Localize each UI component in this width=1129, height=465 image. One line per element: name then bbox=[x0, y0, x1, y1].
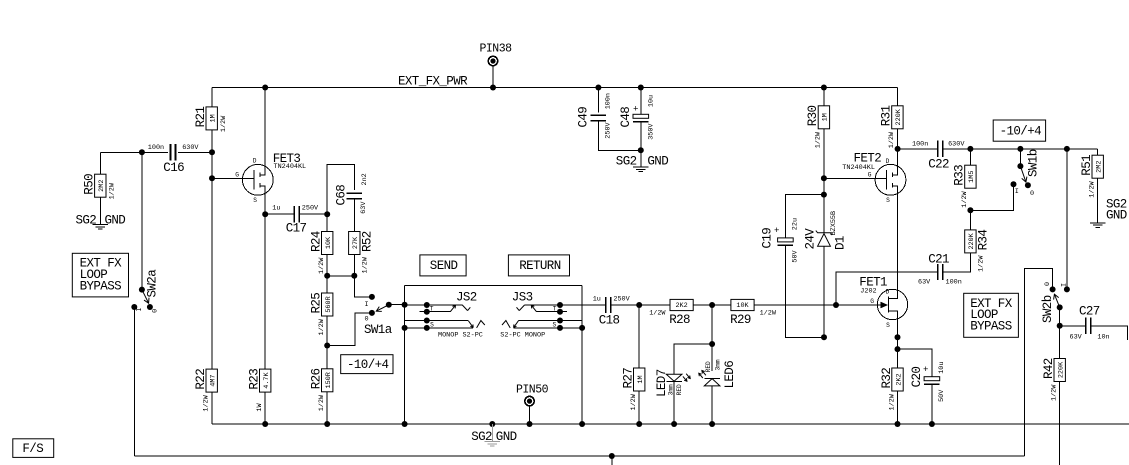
svg-text:22u: 22u bbox=[791, 218, 799, 230]
wire R33 top lead bbox=[969, 149, 971, 165]
svg-text:1W: 1W bbox=[256, 403, 264, 412]
svg-text:2M2: 2M2 bbox=[1096, 161, 1104, 173]
pin label T of JS3 bbox=[553, 305, 557, 312]
node junction R28/R29/LED bbox=[709, 302, 715, 308]
svg-text:R52: R52 bbox=[361, 231, 375, 252]
box EXT FX LOOP BYPASS right bbox=[964, 293, 1019, 337]
node junction SW1a/jack rail bbox=[402, 302, 408, 308]
svg-text:C17: C17 bbox=[286, 222, 307, 236]
wire bypass loop bus bbox=[134, 455, 1024, 457]
svg-text:0: 0 bbox=[152, 309, 160, 313]
svg-text:1/2W: 1/2W bbox=[318, 257, 326, 274]
svg-text:1/2W: 1/2W bbox=[961, 190, 969, 207]
switch SW1a pole bbox=[386, 302, 392, 308]
resistor R52 bbox=[349, 231, 375, 273]
svg-text:250V: 250V bbox=[613, 295, 630, 303]
ground SG2 under C48 bbox=[633, 167, 648, 172]
label SG2 GND under C48 bbox=[616, 155, 668, 169]
box -10/+4 left bbox=[341, 355, 393, 374]
svg-text:SEND: SEND bbox=[430, 259, 458, 273]
transistor FET1 J202 bbox=[836, 276, 908, 338]
wire R31 bottom lead bbox=[896, 129, 898, 149]
svg-text:+: + bbox=[633, 105, 638, 115]
resistor R51 bbox=[1080, 155, 1104, 198]
svg-text:GND: GND bbox=[1106, 209, 1127, 223]
wire R33-R34 junction bbox=[969, 210, 971, 230]
svg-text:SW2a: SW2a bbox=[146, 269, 160, 298]
switch SW2a contact I bbox=[131, 304, 144, 312]
svg-text:R28: R28 bbox=[669, 313, 690, 327]
wire jack enclosure top bbox=[405, 285, 582, 287]
svg-text:D: D bbox=[886, 288, 890, 295]
wire SW2a pole column bbox=[141, 152, 143, 289]
switch SW2b contact I bbox=[1061, 283, 1070, 292]
wire R30 column bbox=[823, 88, 825, 195]
svg-text:GND: GND bbox=[105, 214, 126, 228]
resistor R24 bbox=[310, 231, 334, 274]
ground SG2 under R51 bbox=[1090, 223, 1105, 228]
svg-text:250V: 250V bbox=[605, 121, 613, 138]
resistor R31 bbox=[880, 88, 904, 149]
svg-text:0: 0 bbox=[1030, 190, 1034, 198]
resistor R23 bbox=[248, 369, 272, 412]
capacitor C21 bbox=[918, 253, 962, 287]
jack JS3 ring switch contact bbox=[531, 305, 567, 315]
capacitor C48 electrolytic bbox=[619, 88, 655, 151]
node junction D1 anode rail bbox=[821, 334, 827, 340]
capacitor C27 bbox=[1060, 305, 1128, 342]
resistor R25 bbox=[310, 293, 334, 336]
switch SW1b contact 0 bbox=[1025, 182, 1034, 198]
svg-text:1/2W: 1/2W bbox=[760, 309, 777, 317]
wire FET1 gate to C21 riser bbox=[836, 272, 938, 305]
jack JS3 sleeve switch contact bbox=[502, 318, 582, 328]
pin label S of JS2 bbox=[430, 322, 434, 329]
wire C22 output row bbox=[943, 148, 1098, 150]
svg-text:G: G bbox=[868, 171, 872, 178]
svg-text:I: I bbox=[365, 301, 369, 309]
switch SW1a contact I bbox=[365, 294, 375, 309]
jack JS2 ring switch contact bbox=[420, 305, 456, 315]
svg-text:1/2W: 1/2W bbox=[318, 318, 326, 335]
pin PIN50 bbox=[516, 384, 549, 425]
svg-text:SW2b: SW2b bbox=[1041, 295, 1055, 323]
svg-text:S2-PC MONOP: S2-PC MONOP bbox=[500, 332, 545, 340]
svg-text:RED: RED bbox=[676, 384, 683, 395]
svg-text:R27: R27 bbox=[622, 368, 636, 389]
wire C20 bottom lead bbox=[931, 384, 933, 424]
wire R24-R52 junction row bbox=[327, 275, 354, 277]
svg-text:1/2W: 1/2W bbox=[109, 182, 117, 199]
capacitor C22 bbox=[898, 141, 966, 172]
node junction jack left rail bus bbox=[402, 421, 408, 427]
wire R51 bottom lead bbox=[1097, 178, 1099, 223]
wire left column x=212 (R21/R22 column) bbox=[211, 88, 213, 425]
svg-text:S: S bbox=[253, 197, 257, 204]
svg-text:BYPASS: BYPASS bbox=[970, 320, 1012, 334]
switch SW1a lever bbox=[376, 305, 389, 312]
switch SW1a contact 0 bbox=[365, 310, 375, 324]
svg-text:LED6: LED6 bbox=[723, 361, 737, 389]
svg-text:63V: 63V bbox=[918, 279, 931, 287]
wire R24 top lead bbox=[326, 214, 328, 231]
pin label T of JS2 bbox=[430, 305, 434, 312]
svg-text:C21: C21 bbox=[928, 253, 949, 267]
svg-text:SG2: SG2 bbox=[76, 214, 97, 228]
resistor R32 bbox=[880, 349, 904, 424]
capacitor C68 bbox=[335, 173, 369, 214]
svg-text:1/2W: 1/2W bbox=[630, 393, 638, 410]
wire SW2a-I to lower bus bbox=[133, 307, 135, 456]
svg-text:50V: 50V bbox=[938, 389, 946, 402]
svg-text:S: S bbox=[886, 322, 890, 329]
svg-text:I: I bbox=[1015, 188, 1019, 196]
net label EXT_FX_PWR bbox=[398, 75, 468, 89]
svg-text:1M: 1M bbox=[637, 375, 645, 383]
node junction R33/R34/SW1b-I bbox=[967, 207, 973, 213]
wire R52 bottom lead bbox=[353, 255, 355, 276]
svg-text:SW1a: SW1a bbox=[364, 323, 393, 337]
svg-text:1/2W: 1/2W bbox=[815, 131, 823, 148]
svg-text:R42: R42 bbox=[1042, 358, 1056, 379]
node junction SW1b pole bbox=[1017, 146, 1023, 152]
switch SW1b pole stub bbox=[1017, 149, 1023, 169]
svg-text:1/2W: 1/2W bbox=[888, 393, 896, 410]
wire R24 bottom lead bbox=[326, 255, 328, 276]
svg-text:3mm: 3mm bbox=[667, 384, 674, 395]
wire main ground bus bbox=[212, 423, 1129, 425]
svg-text:2K2: 2K2 bbox=[895, 373, 903, 385]
svg-text:C22: C22 bbox=[928, 158, 949, 172]
node junction SW2b-I riser bbox=[1064, 146, 1070, 152]
node junction R24/R25 bbox=[324, 273, 330, 279]
svg-text:100n: 100n bbox=[605, 93, 613, 109]
svg-text:1u: 1u bbox=[272, 205, 280, 213]
wire C16 left segment bbox=[100, 151, 168, 153]
wire C16 right segment bbox=[178, 151, 212, 153]
svg-text:150R: 150R bbox=[325, 372, 333, 388]
switch SW2a lever bbox=[142, 290, 149, 304]
wire LED7 top loop bbox=[674, 344, 712, 374]
pin label S of JS3 bbox=[553, 322, 557, 329]
label S2-PC MONOP bbox=[500, 332, 545, 340]
wire SW1a pole to jack rail bbox=[389, 304, 405, 306]
node junction C17/R24/C68 bbox=[324, 211, 330, 217]
svg-text:2M2: 2M2 bbox=[98, 180, 106, 192]
capacitor C20 electrolytic bbox=[910, 362, 946, 402]
node junction C20 bus bbox=[929, 421, 935, 427]
svg-text:G: G bbox=[235, 172, 239, 179]
svg-text:I: I bbox=[1061, 283, 1069, 287]
resistor R21 bbox=[194, 107, 228, 133]
svg-text:BYPASS: BYPASS bbox=[80, 279, 122, 293]
jack JS3 sleeve row lower bbox=[514, 325, 586, 331]
wire R23 column bbox=[264, 214, 266, 369]
ground SG2 on bus bbox=[485, 424, 500, 446]
node junction gnd stub bus bbox=[489, 421, 495, 427]
label JS3 bbox=[512, 291, 533, 305]
svg-text:220K: 220K bbox=[1058, 361, 1066, 378]
svg-text:D: D bbox=[886, 158, 890, 165]
node junction D1/C19 top bbox=[821, 192, 827, 198]
node junction R29/FET1 gate/C21 branch bbox=[833, 302, 839, 308]
svg-text:C49: C49 bbox=[577, 107, 591, 128]
box RETURN bbox=[508, 255, 569, 276]
svg-text:100n: 100n bbox=[912, 141, 928, 149]
wire EXT_FX_PWR top power bus bbox=[212, 87, 897, 89]
resistor R34 bbox=[965, 230, 991, 272]
resistor R26 bbox=[310, 368, 334, 411]
wire R27 bottom lead bbox=[638, 391, 640, 424]
node junction PIN38 on bus bbox=[490, 85, 496, 91]
svg-text:TN2404KL: TN2404KL bbox=[274, 163, 307, 171]
svg-text:-10/+4: -10/+4 bbox=[347, 358, 389, 372]
wire R51 top lead bbox=[1067, 149, 1098, 155]
svg-text:S: S bbox=[430, 322, 434, 329]
transistor FET2 TN2404KL bbox=[824, 149, 906, 289]
node junction FET3 gate tap bbox=[209, 175, 215, 181]
svg-text:C16: C16 bbox=[163, 161, 184, 175]
diode D1 BZX55B zener bbox=[804, 195, 848, 338]
wire R50 bottom lead bbox=[99, 197, 101, 224]
svg-text:I: I bbox=[136, 307, 144, 311]
resistor R29 bbox=[712, 299, 836, 327]
jack JS2 tip contact bbox=[405, 302, 471, 311]
wire C48 ground stub bbox=[640, 150, 642, 167]
resistor R50 bbox=[83, 174, 117, 200]
svg-text:S: S bbox=[886, 197, 890, 204]
svg-text:630V: 630V bbox=[948, 141, 965, 149]
capacitor C16 bbox=[148, 144, 200, 175]
svg-text:1M: 1M bbox=[210, 114, 218, 122]
svg-text:4M7: 4M7 bbox=[210, 374, 218, 386]
wire bypass bus stub down bbox=[611, 456, 613, 465]
node junction FET1 source rail bbox=[895, 334, 901, 340]
svg-text:R24: R24 bbox=[310, 231, 324, 252]
jack JS3 tip contact bbox=[517, 302, 583, 311]
node junction C48 top on bus bbox=[638, 85, 644, 91]
svg-text:220K: 220K bbox=[895, 108, 903, 125]
resistor R30 bbox=[806, 105, 830, 148]
node junction C22/R33 bbox=[967, 146, 973, 152]
svg-text:MONOP S2-PC: MONOP S2-PC bbox=[438, 332, 483, 340]
svg-text:250V: 250V bbox=[302, 205, 319, 213]
node junction R25/R26/SW1a-0 bbox=[324, 343, 330, 349]
svg-text:C20: C20 bbox=[910, 367, 924, 388]
wire FET1 source to R32/C20 node bbox=[897, 337, 899, 349]
wire C21 to R34 bbox=[943, 253, 971, 272]
label SW1b bbox=[1027, 149, 1041, 177]
resistor R22 bbox=[194, 369, 218, 412]
svg-text:100n: 100n bbox=[946, 279, 962, 287]
wire R26 leads bbox=[326, 346, 328, 425]
svg-text:+: + bbox=[774, 226, 779, 236]
node junction R31/FET2 drain/C22 bbox=[895, 146, 901, 152]
node junction R26 bus bbox=[324, 421, 330, 427]
switch SW2b contact 0 bbox=[1044, 282, 1056, 292]
box SEND bbox=[420, 255, 466, 276]
node junction jack right rail bus bbox=[579, 421, 585, 427]
wire R23 bottom lead bbox=[264, 392, 266, 424]
LED LED6 bbox=[699, 359, 737, 388]
svg-text:10u: 10u bbox=[647, 95, 655, 107]
label SG2 GND under R50 bbox=[76, 214, 126, 228]
svg-text:D: D bbox=[253, 158, 257, 165]
svg-text:C68: C68 bbox=[335, 185, 349, 206]
svg-text:R50: R50 bbox=[83, 174, 97, 195]
node junction LED7 top bbox=[709, 341, 715, 347]
node junction R22 bus bbox=[262, 421, 268, 427]
svg-text:C48: C48 bbox=[619, 107, 633, 128]
label MONOP S2-PC bbox=[438, 332, 483, 340]
node junction LED7 bus bbox=[671, 421, 677, 427]
svg-text:2K2: 2K2 bbox=[675, 302, 687, 310]
switch SW2b pole bbox=[1057, 304, 1063, 310]
wire C20 top loop bbox=[898, 349, 932, 377]
node junction C27/R42 bbox=[1057, 323, 1063, 329]
box -10/+4 right bbox=[993, 120, 1045, 141]
svg-text:R29: R29 bbox=[730, 313, 751, 327]
svg-text:BZX55B: BZX55B bbox=[830, 211, 838, 235]
wire SW1a-0 to R25/R26 node bbox=[327, 313, 372, 346]
switch SW1b lever bbox=[1020, 166, 1027, 182]
wire LED column from R28/R29 node bbox=[711, 305, 713, 371]
node junction C16-right/R21 bbox=[209, 149, 215, 155]
switch SW1b contact I bbox=[1011, 181, 1019, 196]
wire jack right rail bbox=[581, 286, 583, 424]
svg-text:T: T bbox=[430, 305, 434, 312]
svg-text:R34: R34 bbox=[977, 230, 991, 251]
transistor FET3 TN2404KL bbox=[212, 88, 306, 215]
jack JS2 sleeve row lower bbox=[402, 325, 474, 331]
node junction LED6 bus bbox=[709, 421, 715, 427]
svg-text:220K: 220K bbox=[968, 232, 976, 249]
node junction R30 top on bus bbox=[821, 85, 827, 91]
wire LED7 cathode lead bbox=[673, 381, 675, 424]
label JS2 bbox=[456, 291, 477, 305]
wire C68 top loop bbox=[327, 165, 354, 215]
resistor R28 bbox=[639, 299, 712, 327]
svg-text:1M: 1M bbox=[822, 113, 830, 121]
wire SW2b-I riser bbox=[1066, 149, 1068, 290]
capacitor C18 bbox=[582, 295, 639, 327]
svg-text:27K: 27K bbox=[352, 236, 360, 249]
svg-text:JS3: JS3 bbox=[512, 291, 533, 305]
svg-text:1/2W: 1/2W bbox=[888, 131, 896, 148]
switch SW2a contact 0 bbox=[147, 304, 160, 313]
svg-text:1M5: 1M5 bbox=[968, 171, 976, 183]
box EXT FX LOOP BYPASS left bbox=[72, 253, 128, 297]
wire LED6 anode lead bbox=[711, 386, 713, 424]
label SG2 GND under R51 bbox=[1106, 198, 1127, 223]
node junction PIN50 bus bbox=[527, 421, 533, 427]
svg-text:R21: R21 bbox=[194, 107, 208, 128]
svg-text:R30: R30 bbox=[806, 105, 820, 126]
wire R42 bottom lead bbox=[1059, 382, 1061, 465]
svg-text:1/2W: 1/2W bbox=[1051, 384, 1059, 401]
svg-text:560R: 560R bbox=[325, 296, 333, 312]
svg-text:RETURN: RETURN bbox=[519, 259, 561, 273]
node junction R52 bottom bbox=[351, 273, 357, 279]
label SW2b bbox=[1041, 295, 1055, 323]
svg-text:G: G bbox=[870, 298, 874, 305]
wire jack left rail bbox=[404, 286, 406, 424]
svg-text:SW1b: SW1b bbox=[1027, 149, 1041, 177]
jack JS2 sleeve switch contact bbox=[405, 318, 485, 328]
svg-text:2n2: 2n2 bbox=[361, 173, 369, 185]
capacitor C49 bbox=[577, 88, 641, 151]
svg-text:1u: 1u bbox=[593, 295, 601, 303]
switch SW2a pole bbox=[139, 287, 145, 293]
node junction R32/C20 bbox=[895, 346, 901, 352]
svg-text:50V: 50V bbox=[791, 249, 799, 262]
svg-text:R23: R23 bbox=[248, 369, 262, 390]
wire C68 to R52 bbox=[353, 199, 355, 232]
svg-text:10u: 10u bbox=[938, 362, 946, 374]
svg-text:1/2W: 1/2W bbox=[649, 309, 666, 317]
capacitor C17 bbox=[265, 205, 327, 236]
svg-text:1/2W: 1/2W bbox=[1089, 180, 1097, 197]
pin PIN38 bbox=[480, 43, 513, 88]
svg-text:1/2W: 1/2W bbox=[220, 115, 228, 132]
svg-text:EXT_FX_PWR: EXT_FX_PWR bbox=[398, 75, 468, 89]
label SW1a bbox=[364, 323, 393, 337]
node junction R27 bus bbox=[636, 421, 642, 427]
svg-text:10n: 10n bbox=[1097, 334, 1109, 342]
svg-text:100n: 100n bbox=[148, 144, 164, 152]
svg-text:C18: C18 bbox=[599, 314, 620, 328]
svg-text:R25: R25 bbox=[310, 293, 324, 314]
ground SG2 under R50 bbox=[93, 225, 108, 230]
resistor R33 bbox=[953, 165, 977, 208]
svg-text:+: + bbox=[923, 365, 928, 375]
wire SW2b pole to C27/R42 bbox=[1059, 307, 1061, 325]
svg-text:T: T bbox=[553, 305, 557, 312]
svg-text:R26: R26 bbox=[310, 368, 324, 389]
wire SW1b-I to R33 bottom bbox=[970, 184, 1013, 210]
svg-text:F/S: F/S bbox=[22, 442, 43, 456]
svg-text:R33: R33 bbox=[953, 165, 967, 186]
svg-text:1/2W: 1/2W bbox=[978, 255, 986, 272]
svg-text:3mm: 3mm bbox=[714, 359, 721, 370]
svg-text:C27: C27 bbox=[1079, 305, 1100, 319]
wire SW2b-0 branch bbox=[1025, 269, 1053, 456]
svg-text:GND: GND bbox=[647, 155, 668, 169]
svg-text:1/2W: 1/2W bbox=[318, 394, 326, 411]
node junction bypass bus stub bbox=[609, 453, 615, 459]
resistor R27 bbox=[622, 368, 646, 411]
node junction C16/SW2a bbox=[139, 149, 145, 155]
svg-text:63V: 63V bbox=[360, 201, 368, 214]
node junction C48/C49 gnd bbox=[638, 147, 644, 153]
label SG2 GND on bus bbox=[471, 430, 516, 444]
node junction FET3 drain on bus bbox=[262, 85, 268, 91]
switch SW2b lever bbox=[1054, 294, 1060, 307]
svg-text:63V: 63V bbox=[1070, 334, 1083, 342]
wire R50 top lead bbox=[99, 152, 101, 174]
svg-text:350V: 350V bbox=[647, 123, 655, 140]
wire C19 top loop bbox=[785, 195, 824, 238]
svg-text:10K: 10K bbox=[325, 236, 333, 249]
svg-text:10K: 10K bbox=[736, 302, 749, 310]
svg-text:630V: 630V bbox=[182, 144, 199, 152]
svg-text:0: 0 bbox=[1044, 282, 1052, 286]
svg-text:1/2W: 1/2W bbox=[362, 256, 370, 273]
svg-text:24V: 24V bbox=[804, 228, 818, 250]
LED LED7 bbox=[655, 369, 690, 397]
svg-text:4.7K: 4.7K bbox=[263, 372, 271, 389]
svg-text:R31: R31 bbox=[880, 105, 894, 126]
